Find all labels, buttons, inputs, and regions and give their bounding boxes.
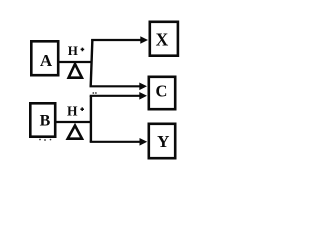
label Y bbox=[157, 132, 169, 151]
label H+ over A line bbox=[68, 43, 84, 58]
scan speckles near branch bbox=[92, 92, 96, 94]
svg-text:Y: Y bbox=[157, 132, 169, 151]
svg-text:H: H bbox=[68, 43, 78, 58]
wire to C lower bbox=[90, 95, 140, 97]
wire to C upper bbox=[90, 85, 141, 87]
box A bbox=[31, 41, 58, 75]
arrowhead into X bbox=[140, 36, 148, 44]
box Y bbox=[149, 124, 175, 158]
arrowhead into C lower bbox=[139, 92, 147, 100]
label B bbox=[40, 113, 51, 130]
wire to X bbox=[91, 39, 141, 41]
svg-text:A: A bbox=[40, 51, 53, 70]
label H+ over B line bbox=[67, 104, 84, 119]
arrowhead into Y bbox=[140, 138, 148, 146]
box C bbox=[149, 77, 175, 109]
wire B reaction line bbox=[56, 121, 93, 123]
svg-text:C: C bbox=[156, 82, 168, 101]
wire to Y bbox=[90, 141, 140, 143]
label A bbox=[40, 51, 53, 70]
svg-text:B: B bbox=[40, 113, 51, 130]
box X bbox=[150, 22, 178, 56]
label C bbox=[156, 82, 168, 101]
box B bbox=[30, 103, 55, 136]
label X bbox=[156, 30, 169, 50]
svg-text:H: H bbox=[67, 104, 78, 119]
delta under A line bbox=[69, 64, 82, 78]
delta under B line bbox=[68, 126, 82, 139]
arrowhead into C upper bbox=[139, 83, 147, 91]
svg-text:X: X bbox=[156, 30, 169, 50]
wire B branch vertical bbox=[90, 96, 92, 142]
scan speckles under box B bbox=[39, 139, 51, 141]
wire A branch vertical bbox=[91, 39, 93, 86]
wire A reaction line bbox=[59, 61, 93, 63]
